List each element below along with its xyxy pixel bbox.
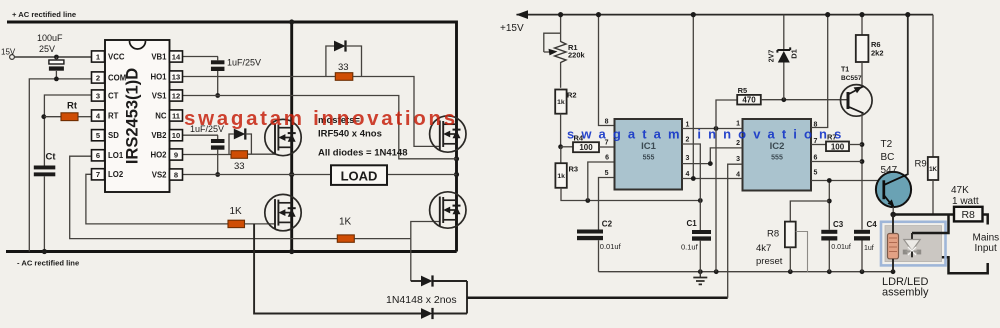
transistor T2 BC547 <box>876 172 911 207</box>
resistor R9 1K <box>932 15 934 157</box>
svg-text:1uF/25V: 1uF/25V <box>227 58 261 68</box>
svg-text:+ AC rectified line: + AC rectified line <box>12 10 76 19</box>
svg-text:100: 100 <box>579 143 593 152</box>
svg-text:547: 547 <box>881 165 898 176</box>
junction R6 at rail <box>859 12 864 17</box>
wire COM pin2 to bottom rail <box>29 79 91 252</box>
svg-text:LO2: LO2 <box>108 170 124 179</box>
svg-text:5: 5 <box>814 170 818 177</box>
junction IC2 pin6 node <box>860 159 865 164</box>
svg-text:Mains: Mains <box>973 233 1000 244</box>
svg-text:6: 6 <box>96 151 100 160</box>
pin 7 LO2 <box>92 169 105 180</box>
load LOAD box <box>331 165 387 185</box>
resistor LDR <box>892 215 894 234</box>
svg-text:R5: R5 <box>738 86 748 95</box>
svg-text:1K: 1K <box>929 166 937 173</box>
svg-text:All diodes = 1N4148: All diodes = 1N4148 <box>318 148 408 159</box>
junction left bus top <box>289 19 294 24</box>
svg-text:15V: 15V <box>1 48 16 57</box>
wire PWM injection from bottom-left gate down <box>254 224 421 314</box>
svg-text:HO2: HO2 <box>150 150 167 159</box>
svg-text:R8: R8 <box>767 229 779 240</box>
svg-text:9: 9 <box>174 150 178 159</box>
junction left bus bottom <box>289 249 294 254</box>
svg-text:3: 3 <box>96 91 100 100</box>
transistor Q4 bottom-right MOSFET IRF540 <box>430 192 466 228</box>
ic IC1 555 body <box>615 119 683 190</box>
wire CT pin3 to Ct <box>44 95 91 166</box>
svg-text:Rt: Rt <box>67 101 78 112</box>
wire node row1 IC1 pin1 to IC2 pin1 <box>682 128 743 130</box>
capacitor C3 0.01uf <box>821 230 837 234</box>
wire IC2 pin6 to node <box>811 161 862 163</box>
wire IC1 pin5 to C2 <box>599 178 615 230</box>
capacitor 100uF 25V electrolytic <box>55 57 57 60</box>
resistor Rt <box>44 116 61 118</box>
junction C3 at ground bus <box>827 269 832 274</box>
junction pin6 wire on timing bus <box>585 198 590 203</box>
resistor 33 bottom gate <box>231 151 248 159</box>
junction pin5 branch <box>827 178 832 183</box>
junction D1 zener at base line <box>781 97 786 102</box>
svg-text:1uf: 1uf <box>864 245 874 252</box>
svg-text:NC: NC <box>155 111 167 120</box>
capacitor Ct <box>34 166 56 170</box>
svg-text:R3: R3 <box>569 165 579 174</box>
wire reset line to rail <box>692 15 694 179</box>
svg-text:COM: COM <box>108 73 126 82</box>
wire 15V to pin1 VCC <box>15 56 92 58</box>
svg-text:assembly: assembly <box>882 287 929 299</box>
svg-text:T1: T1 <box>841 67 849 74</box>
capacitor 1uF/25V bootstrap top <box>217 57 219 61</box>
svg-text:2: 2 <box>96 73 100 82</box>
wire pin5 branch to R8 preset and C3 <box>828 181 830 230</box>
svg-text:Ct: Ct <box>46 152 57 163</box>
svg-text:VCC: VCC <box>108 52 125 61</box>
svg-text:3: 3 <box>736 156 740 163</box>
svg-text:R2: R2 <box>567 91 577 100</box>
wire VB1 pin14 to bootstrap cap 1 <box>183 56 219 58</box>
svg-text:1N4148 x 2nos: 1N4148 x 2nos <box>386 294 457 306</box>
wire R5 to T1 base <box>761 99 848 101</box>
svg-text:VB2: VB2 <box>151 131 167 140</box>
svg-text:25V: 25V <box>39 44 55 54</box>
wire ground bus <box>599 271 894 273</box>
svg-text:11: 11 <box>172 111 181 120</box>
svg-text:12: 12 <box>172 91 180 100</box>
wire VS1 pin12 to right bus <box>183 96 457 159</box>
svg-text:4: 4 <box>686 171 690 178</box>
ground symbol <box>699 272 701 278</box>
pin 5 SD <box>92 130 105 141</box>
junction R8 preset top node <box>827 199 832 204</box>
svg-text:0.01uf: 0.01uf <box>831 244 851 251</box>
resistor R3 1k <box>560 147 562 163</box>
svg-text:C3: C3 <box>833 220 844 229</box>
wire gate node up to bottom-right MOSFET gate <box>411 222 440 239</box>
svg-text:R9: R9 <box>915 159 927 170</box>
svg-text:C4: C4 <box>867 220 878 229</box>
svg-text:8: 8 <box>605 119 609 126</box>
transistor Q3 top-right MOSFET IRF540 <box>430 116 466 152</box>
svg-text:47K: 47K <box>951 185 969 196</box>
svg-text:C2: C2 <box>602 220 613 229</box>
resistor 33 top gate <box>335 73 353 81</box>
wire diodes to IC2 output <box>467 297 728 300</box>
svg-text:33: 33 <box>234 161 245 172</box>
svg-text:swagatam innovations: swagatam innovations <box>184 107 458 130</box>
svg-text:C1: C1 <box>687 219 698 228</box>
wire R8 preset wiper <box>796 232 808 272</box>
junction pin2 wire on timing bus <box>698 198 703 203</box>
resistor 1K bottom-right gate <box>337 235 354 242</box>
resistor R5 470 <box>737 95 761 105</box>
svg-text:1 watt: 1 watt <box>952 196 979 207</box>
svg-text:1k: 1k <box>557 173 565 180</box>
terminal 15V input circle <box>10 55 15 60</box>
junction bootstrap cap 1 on VS1 wire <box>215 93 220 98</box>
svg-text:IC1: IC1 <box>641 141 657 152</box>
transistor Q1 top-left MOSFET IRF540 <box>265 119 301 155</box>
pin 8 VS2 <box>170 169 183 180</box>
capacitor C4 1uf <box>854 230 870 234</box>
wire IC2 pin5 to T2 base <box>811 180 884 182</box>
svg-text:swagatam innovations: swagatam innovations <box>567 127 848 142</box>
junction bootstrap cap 2 on VS2 wire <box>215 172 220 177</box>
svg-text:VB1: VB1 <box>151 52 167 61</box>
junction left bus load node <box>289 172 294 177</box>
op-amp U1 IRS2453(1)D driver IC body <box>105 40 170 192</box>
svg-text:preset: preset <box>756 256 783 267</box>
junction R1 at rail <box>558 12 563 17</box>
wire IC1 pin3 to IC2 pin2 <box>682 148 743 164</box>
diode D1 zener 2V7 <box>783 15 785 50</box>
junction reset at rail <box>691 12 696 17</box>
wire +15V rail <box>517 14 934 16</box>
wire LED lower lead <box>911 252 913 258</box>
potentiometer R8 4k7 preset <box>785 222 796 248</box>
resistor R7 100 <box>811 144 826 146</box>
pin 11 NC <box>170 110 183 121</box>
svg-text:BC557: BC557 <box>841 75 862 82</box>
LED lamp symbol <box>904 240 920 251</box>
wire gnd net vertical R5 to ground bus <box>716 100 737 272</box>
svg-text:555: 555 <box>771 155 783 162</box>
wire LO2 pin7 to 1K gate resistor bottom-left <box>86 174 228 224</box>
pin 10 VB2 <box>170 130 183 141</box>
svg-text:IRF540 x 4nos: IRF540 x 4nos <box>318 129 382 140</box>
wire + AC rectified top rail with right bus <box>7 22 457 252</box>
LDR LED assembly box <box>881 222 946 266</box>
wire IC1 pin8 VCC to rail <box>599 15 615 126</box>
svg-text:1k: 1k <box>557 99 565 106</box>
svg-text:14: 14 <box>172 52 181 61</box>
wire R1 wiper loop <box>544 33 561 52</box>
svg-text:VS2: VS2 <box>152 170 167 179</box>
svg-text:7: 7 <box>96 170 100 179</box>
junction R2 R3 R4 node <box>558 144 563 149</box>
svg-text:1K: 1K <box>339 217 352 228</box>
svg-text:0.01uf: 0.01uf <box>600 242 622 251</box>
svg-text:R8: R8 <box>961 209 975 221</box>
svg-text:2V7: 2V7 <box>769 50 776 63</box>
wire mains terminal lower to LED <box>919 257 988 273</box>
diode D3 across 33 ohm top <box>326 46 334 77</box>
wire 1K to bottom-left MOSFET gate <box>245 223 276 225</box>
wire LED upper lead <box>912 215 949 234</box>
wire LO1 pin6 to 1K gate resistor bottom-right <box>70 156 338 238</box>
svg-text:5: 5 <box>605 170 609 177</box>
wire R8 to mains terminal upper <box>983 215 988 225</box>
svg-text:SD: SD <box>108 131 119 140</box>
pin 6 LO1 <box>92 150 105 161</box>
junction R7 node <box>860 142 865 147</box>
wire HO2 pin9 through 33 ohm to top-left MOSFET gate <box>183 154 232 156</box>
resistor R6 2k2 <box>861 15 863 35</box>
svg-text:VS1: VS1 <box>152 91 167 100</box>
junction Rt tap on CT wire <box>41 114 46 119</box>
wire IC2 pin8 to rail <box>811 15 828 128</box>
wire to R8 preset top <box>790 201 829 222</box>
wire gate node down to diode D5 anode <box>410 239 412 281</box>
svg-text:6: 6 <box>605 155 609 162</box>
svg-text:8: 8 <box>174 170 178 179</box>
junction right bus load node <box>454 172 459 177</box>
svg-text:100uF: 100uF <box>37 33 63 43</box>
svg-text:100: 100 <box>831 142 845 151</box>
junction IC2 VCC at rail <box>825 12 830 17</box>
svg-text:220k: 220k <box>568 51 586 60</box>
pin 3 CT <box>92 90 105 101</box>
junction row1 gnd net <box>714 126 719 131</box>
pin 14 VB1 <box>170 51 183 62</box>
capacitor C2 0.01uf <box>577 230 603 234</box>
capacitor 1uF/25V bootstrap bottom <box>217 135 219 139</box>
wire T2 emitter node to R8 47K <box>892 207 894 215</box>
svg-text:470: 470 <box>742 96 756 105</box>
svg-text:13: 13 <box>172 72 180 81</box>
junction C1 at ground bus <box>698 269 703 274</box>
wire row4 reset line IC1 pin4 to IC2 pin4 <box>682 178 743 180</box>
wire to top-left MOSFET gate <box>248 153 276 155</box>
svg-text:RT: RT <box>108 111 119 120</box>
svg-text:1K: 1K <box>230 206 243 217</box>
svg-text:10: 10 <box>172 131 180 140</box>
svg-text:BC: BC <box>881 152 895 163</box>
junction T2 collector at rail <box>905 12 910 17</box>
svg-text:555: 555 <box>643 155 655 162</box>
junction IC1 pin3 corner <box>708 161 713 166</box>
wire left bridge bus <box>290 22 293 252</box>
wire 1K to bottom-right MOSFET gate node <box>354 238 411 240</box>
transistor Q2 bottom-left MOSFET IRF540 <box>265 194 301 230</box>
pin 12 VS1 <box>170 90 183 101</box>
potentiometer R1 220k preset <box>560 15 562 42</box>
svg-text:Input: Input <box>975 243 997 254</box>
pin 9 HO2 <box>170 149 183 160</box>
junction T2 emitter node <box>890 212 896 218</box>
pin 2 COM <box>92 72 105 83</box>
wire IC2 pin3 output down to diodes wire <box>728 164 743 298</box>
svg-text:LO1: LO1 <box>108 151 124 160</box>
svg-text:CT: CT <box>108 91 119 100</box>
resistor R8 47K 1 watt <box>954 207 983 222</box>
junction Ct at rail <box>42 249 47 254</box>
wire diode cathodes join <box>466 281 468 314</box>
pin 1 VCC <box>92 51 105 62</box>
junction reset at row4 <box>691 176 696 181</box>
svg-text:IC2: IC2 <box>770 141 785 152</box>
svg-text:0.1uf: 0.1uf <box>681 243 699 252</box>
wire IC1 pin2 down to C1 <box>682 144 700 230</box>
resistor R4 100 <box>561 146 573 148</box>
svg-text:LOAD: LOAD <box>341 169 378 184</box>
junction IC1 VCC at rail <box>596 12 601 17</box>
junction gnd net vertical at ground bus <box>714 269 719 274</box>
transistor T1 BC557 <box>841 85 873 117</box>
junction C4 at ground bus <box>860 269 865 274</box>
svg-text:4: 4 <box>736 172 740 179</box>
junction right bus VS1 node <box>454 156 459 161</box>
wire IC1 pin6 down to timing bus <box>588 162 615 201</box>
junction LDR at ground bus <box>891 269 896 274</box>
diode D5 1N4148 upper <box>411 280 421 282</box>
junction 100uF top <box>54 55 59 60</box>
svg-text:6: 6 <box>814 155 818 162</box>
wire - AC rectified bottom rail <box>6 250 457 253</box>
junction R8 preset at ground bus <box>788 269 793 274</box>
diode D4 across 33 ohm bottom <box>229 134 234 155</box>
svg-text:- AC rectified line: - AC rectified line <box>17 259 79 268</box>
resistor 1K bottom-left gate <box>228 220 245 227</box>
pin 13 HO1 <box>170 71 183 82</box>
wire VS2 pin8 to left bus and LOAD row <box>183 174 332 176</box>
wire VB2 pin10 to bootstrap cap 2 <box>183 134 219 136</box>
svg-text:+15V: +15V <box>500 23 524 34</box>
svg-text:T2: T2 <box>881 139 893 150</box>
diode D6 1N4148 lower <box>421 308 433 319</box>
svg-text:2k2: 2k2 <box>871 49 884 58</box>
svg-text:4k7: 4k7 <box>756 243 771 254</box>
wire T2 collector to rail <box>907 15 909 175</box>
svg-text:HO1: HO1 <box>150 72 167 81</box>
ic IC2 555 body <box>743 119 812 191</box>
svg-text:D1: D1 <box>790 49 799 59</box>
wire HO1 pin13 through 33 ohm to top-right MOSFET gate <box>183 76 336 78</box>
svg-text:3: 3 <box>686 155 690 162</box>
junction 100uF bottom on COM wire <box>54 77 59 82</box>
wire T1 collector to R7 pin6 C4 node <box>861 113 863 229</box>
svg-text:33: 33 <box>338 62 349 73</box>
resistor R2 1k <box>555 90 566 114</box>
capacitor C1 0.1uf <box>692 230 711 234</box>
pin 4 RT <box>92 110 105 121</box>
